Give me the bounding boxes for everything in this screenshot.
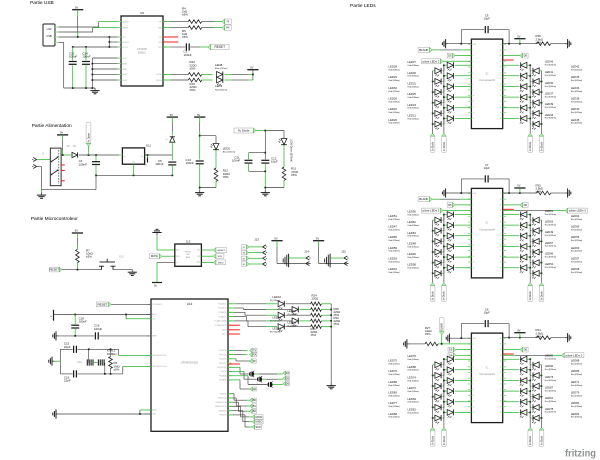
power 9V xyxy=(57,131,68,135)
wire bus xyxy=(443,359,445,427)
wire xyxy=(455,204,471,206)
wire xyxy=(228,415,252,427)
LED LED65 xyxy=(532,228,539,236)
svg-text:21: 21 xyxy=(500,101,502,103)
LED LED29 xyxy=(435,79,441,87)
wire xyxy=(508,30,510,44)
resistor label R26 xyxy=(311,327,318,337)
LED LED68 xyxy=(532,270,539,278)
LED LED41 xyxy=(520,73,527,81)
wire xyxy=(443,70,444,72)
connector J14 xyxy=(271,236,310,267)
LED LED50 xyxy=(447,212,453,220)
LED label LED75 xyxy=(389,359,401,366)
wire xyxy=(433,219,435,221)
svg-text:26: 26 xyxy=(500,366,502,368)
LED label LED52 xyxy=(408,231,420,238)
wire xyxy=(503,96,520,98)
svg-text:Red (633nm): Red (633nm) xyxy=(389,406,401,408)
wire xyxy=(444,359,447,365)
wire xyxy=(59,28,122,32)
wire bus xyxy=(432,220,434,283)
wire xyxy=(444,65,447,71)
svg-text:Red (633nm): Red (633nm) xyxy=(389,101,401,103)
net label MOSI xyxy=(252,415,263,419)
wire rail xyxy=(96,174,172,176)
svg-text:22pF: 22pF xyxy=(64,379,71,383)
net label pilote LEDs 2 xyxy=(422,208,443,213)
svg-text:LED78: LED78 xyxy=(545,407,554,411)
wire xyxy=(527,76,530,82)
wire xyxy=(228,407,252,417)
LED LED63 xyxy=(520,222,527,230)
wire xyxy=(300,320,311,322)
junction xyxy=(432,107,445,114)
LED IR row 1 xyxy=(278,301,284,309)
wire xyxy=(503,235,520,237)
svg-text:PC6(/RESET): PC6(/RESET) xyxy=(152,304,162,306)
svg-text:PB3(MOSI/OC2): PB3(MOSI/OC2) xyxy=(215,406,227,408)
LED LED57 xyxy=(532,260,539,268)
svg-text:MISO: MISO xyxy=(218,262,224,264)
net label RESET xyxy=(208,44,229,49)
svg-text:10: 10 xyxy=(473,95,475,97)
svg-text:LED85: LED85 xyxy=(545,354,554,358)
LED LED71 xyxy=(532,383,539,391)
junction xyxy=(460,192,462,194)
IC Composant4 LED driver xyxy=(468,188,506,278)
capacitor C2 xyxy=(163,43,208,56)
svg-text:±5%: ±5% xyxy=(536,40,542,44)
wire xyxy=(444,215,447,221)
junction xyxy=(529,96,542,103)
svg-text:LED5: LED5 xyxy=(223,146,231,150)
junction xyxy=(109,36,111,38)
capacitor C6 10uF xyxy=(461,14,509,34)
net label D6 xyxy=(520,53,528,58)
svg-text:9v Diode: 9v Diode xyxy=(444,290,446,300)
LED label LED14 xyxy=(270,316,281,323)
wire xyxy=(54,314,152,316)
svg-text:pilote LEDs 3: pilote LEDs 3 xyxy=(423,59,440,63)
svg-text:100nF: 100nF xyxy=(69,55,77,59)
LED label LED60 xyxy=(571,246,583,253)
svg-text:B0: B0 xyxy=(253,398,257,402)
capacitor C7 10uF xyxy=(461,163,509,183)
wire xyxy=(503,390,520,392)
svg-text:Red (633nm): Red (633nm) xyxy=(408,225,420,227)
wire xyxy=(527,391,530,397)
junction xyxy=(432,96,445,103)
LED label LED50 xyxy=(408,210,420,217)
wire xyxy=(503,107,520,109)
LED LED48 xyxy=(447,244,453,252)
svg-text:31: 31 xyxy=(500,44,502,46)
LED LED51 xyxy=(435,217,441,225)
LED LED28 xyxy=(435,68,441,76)
svg-text:J14: J14 xyxy=(304,249,309,253)
svg-text:2: 2 xyxy=(473,199,474,201)
svg-text:LED36: LED36 xyxy=(545,81,554,85)
net label 9v Diode (vertical) xyxy=(430,428,435,447)
wire xyxy=(37,159,51,161)
LED label LED61 xyxy=(545,209,557,216)
svg-text:Red (633nm): Red (633nm) xyxy=(545,96,557,98)
wire xyxy=(444,257,447,263)
wire xyxy=(133,164,135,175)
svg-text:Red (633nm): Red (633nm) xyxy=(408,214,420,216)
svg-text:LED81: LED81 xyxy=(571,412,580,416)
wire xyxy=(527,215,530,221)
LED label LED58 xyxy=(408,263,420,270)
svg-text:Red (633nm): Red (633nm) xyxy=(571,364,583,366)
wire bus xyxy=(541,220,543,283)
svg-text:5V: 5V xyxy=(197,113,200,117)
svg-text:LED91: LED91 xyxy=(545,396,554,400)
wire xyxy=(452,337,471,339)
connector J13 xyxy=(241,237,267,266)
wire xyxy=(433,251,435,253)
wire bus xyxy=(541,71,543,134)
wire xyxy=(145,154,173,156)
svg-text:9v Diode: 9v Diode xyxy=(541,435,543,445)
LED LED6 xyxy=(279,131,287,145)
wire xyxy=(228,359,250,361)
svg-text:Gnd: Gnd xyxy=(132,161,135,163)
junction xyxy=(508,192,510,194)
wire xyxy=(443,262,444,264)
svg-text:Red (633nm): Red (633nm) xyxy=(571,80,583,82)
svg-text:29: 29 xyxy=(500,349,502,351)
junction xyxy=(147,154,149,156)
svg-text:LED53: LED53 xyxy=(389,257,398,261)
LED label LED55 xyxy=(571,235,583,242)
svg-text:6: 6 xyxy=(473,222,474,224)
junction xyxy=(508,43,510,45)
wire xyxy=(539,417,541,419)
wire xyxy=(539,80,541,82)
LED IR row 4 xyxy=(292,318,298,326)
net label D6 xyxy=(520,347,528,352)
svg-text:9v Diode: 9v Diode xyxy=(432,435,434,445)
wire xyxy=(503,358,520,360)
connector J15 xyxy=(313,236,349,267)
svg-text:100nF: 100nF xyxy=(82,55,90,59)
svg-text:AVR: AVR xyxy=(186,256,191,259)
svg-text:LED33: LED33 xyxy=(545,113,554,117)
junction xyxy=(432,235,445,242)
svg-text:LED28: LED28 xyxy=(389,65,398,69)
svg-text:±5%: ±5% xyxy=(425,332,431,336)
wire xyxy=(527,402,530,408)
svg-text:IR (940nm): IR (940nm) xyxy=(288,326,298,328)
net label 9v Diode (vertical) xyxy=(442,283,447,302)
LED label LED37 xyxy=(545,92,557,99)
wire xyxy=(277,320,292,322)
wire xyxy=(157,262,175,282)
svg-text:B1: B1 xyxy=(253,404,257,408)
svg-text:+5: +5 xyxy=(176,262,178,264)
svg-text:3: 3 xyxy=(473,55,474,57)
svg-text:28: 28 xyxy=(500,61,502,63)
LED label LED91 xyxy=(545,396,557,403)
LED LED56 xyxy=(435,239,441,247)
net label SCK xyxy=(252,425,262,429)
wire xyxy=(443,123,444,125)
wire xyxy=(455,358,472,360)
wire xyxy=(444,370,447,376)
IC J12 AVR ISP xyxy=(175,239,202,266)
junction xyxy=(529,369,542,376)
svg-text:20: 20 xyxy=(500,107,502,109)
net label 9v Diode xyxy=(234,128,256,133)
wire xyxy=(455,107,472,109)
LED label LED11 xyxy=(288,309,298,316)
svg-text:LED49: LED49 xyxy=(545,230,554,234)
capacitor C12 xyxy=(261,157,278,191)
wire xyxy=(286,314,311,316)
svg-text:21: 21 xyxy=(500,250,502,252)
wire xyxy=(503,380,520,382)
svg-text:Red (633nm): Red (633nm) xyxy=(389,240,401,242)
wire xyxy=(225,79,253,81)
LED LED66 xyxy=(520,254,527,262)
wire xyxy=(286,326,311,328)
wire xyxy=(113,269,132,271)
svg-text:Red (635nm): Red (635nm) xyxy=(215,89,227,91)
svg-text:LED10: LED10 xyxy=(273,295,282,299)
LED LED35 xyxy=(532,79,539,87)
net label 9v Diode (vertical) xyxy=(442,428,447,447)
wire xyxy=(530,406,531,408)
LED LED89 xyxy=(532,373,539,381)
LED LED59 xyxy=(435,249,441,257)
power 5V xyxy=(514,328,525,337)
svg-text:Red (633nm): Red (633nm) xyxy=(545,224,557,226)
zener diode D3 xyxy=(165,137,175,142)
net label 9v Diode (vertical) xyxy=(528,283,533,302)
wire xyxy=(59,42,96,88)
svg-text:Red (633nm): Red (633nm) xyxy=(571,417,583,419)
wire bus xyxy=(529,359,531,427)
svg-text:PD2(INT0): PD2(INT0) xyxy=(219,359,227,361)
wire xyxy=(455,411,472,413)
wire xyxy=(443,60,471,62)
LED LED36 xyxy=(520,84,527,92)
power 5v (rotated) xyxy=(50,310,54,321)
svg-text:RX: RX xyxy=(253,353,257,357)
wire XTAL2 xyxy=(123,367,151,374)
junction xyxy=(77,36,79,38)
svg-text:LED25: LED25 xyxy=(408,92,417,96)
capacitor C8 10uF xyxy=(461,308,509,328)
wire xyxy=(432,198,471,200)
wire xyxy=(228,308,277,310)
resistor R6 xyxy=(109,349,121,374)
LED LED87 xyxy=(520,388,527,396)
wire xyxy=(503,43,537,45)
wire bus xyxy=(443,215,445,283)
svg-text:4: 4 xyxy=(473,61,474,63)
svg-text:J13: J13 xyxy=(254,237,259,241)
LED LED34 xyxy=(532,89,539,97)
wire xyxy=(201,249,213,251)
svg-text:13: 13 xyxy=(473,262,475,264)
ground xyxy=(565,39,571,48)
wire xyxy=(444,87,447,93)
svg-text:5v: 5v xyxy=(50,316,52,318)
svg-text:9v Diode: 9v Diode xyxy=(444,141,446,151)
junction xyxy=(432,401,445,408)
svg-text:LED69: LED69 xyxy=(408,397,417,401)
capacitor C5 xyxy=(155,159,176,176)
wire bus xyxy=(432,71,434,134)
junction xyxy=(330,320,332,322)
svg-text:Red (633nm): Red (633nm) xyxy=(389,80,401,82)
svg-text:Red (633nm): Red (633nm) xyxy=(571,395,583,397)
wire xyxy=(443,417,444,419)
junction xyxy=(529,358,531,360)
wire xyxy=(444,225,447,231)
svg-text:B2: B2 xyxy=(243,264,245,266)
LED label LED45 xyxy=(571,118,583,125)
LED LED76 xyxy=(447,356,453,364)
unconnected pin ADC7 xyxy=(228,333,240,335)
wire xyxy=(503,55,520,57)
LED LED54 xyxy=(520,265,527,273)
wire xyxy=(433,80,435,82)
wire xyxy=(59,36,122,38)
svg-text:24: 24 xyxy=(500,84,502,86)
svg-text:10µF: 10µF xyxy=(484,17,491,21)
net label D6 xyxy=(520,203,528,208)
LED LED53 xyxy=(435,260,441,268)
wire xyxy=(228,354,247,356)
svg-text:21: 21 xyxy=(500,395,502,397)
svg-text:LED67: LED67 xyxy=(545,241,554,245)
wire xyxy=(503,210,565,212)
wire xyxy=(448,43,471,45)
wire xyxy=(527,246,530,252)
LED LED40 xyxy=(532,111,539,119)
junction xyxy=(264,187,266,189)
svg-text:16 MHz: 16 MHz xyxy=(107,352,118,356)
svg-text:Composant1: Composant1 xyxy=(479,372,495,376)
svg-text:10: 10 xyxy=(473,245,475,247)
wire xyxy=(321,320,331,322)
junction xyxy=(95,175,97,177)
wire xyxy=(503,401,520,403)
power 5V xyxy=(72,229,83,233)
svg-text:6: 6 xyxy=(473,72,474,74)
LED LED61 xyxy=(520,212,527,220)
svg-text:TX: TX xyxy=(226,22,229,24)
svg-text:31: 31 xyxy=(500,338,502,340)
svg-text:B2: B2 xyxy=(253,409,257,413)
wire xyxy=(433,240,435,242)
svg-text:B0: B0 xyxy=(243,253,245,255)
svg-text:LED75: LED75 xyxy=(389,359,398,363)
wire xyxy=(455,96,472,98)
svg-text:D6: D6 xyxy=(524,203,528,207)
resistor IR row 1 xyxy=(311,302,322,306)
LED LED67 xyxy=(520,244,527,252)
wire xyxy=(225,73,253,75)
wire xyxy=(539,251,541,253)
svg-text:13: 13 xyxy=(473,406,475,408)
ground xyxy=(90,88,99,94)
svg-text:Red (633nm): Red (633nm) xyxy=(571,101,583,103)
LED label LED21 xyxy=(408,113,420,120)
resistor R36 xyxy=(536,34,566,45)
wire xyxy=(527,65,530,71)
wire xyxy=(503,214,520,216)
wire xyxy=(443,374,444,376)
LED label LED76 xyxy=(408,354,420,361)
junction xyxy=(529,64,531,66)
power 5v small xyxy=(145,155,148,167)
wire xyxy=(539,272,541,274)
svg-text:5: 5 xyxy=(473,361,474,363)
wire xyxy=(530,102,531,104)
svg-text:LED42: LED42 xyxy=(571,65,580,69)
wire xyxy=(503,337,537,339)
svg-text:19: 19 xyxy=(500,262,502,264)
LED label LED83 xyxy=(389,391,401,398)
LED LED86 xyxy=(447,367,453,375)
svg-text:Red (633nm): Red (633nm) xyxy=(545,267,557,269)
LED LED60 xyxy=(532,249,539,257)
ground xyxy=(53,409,59,418)
svg-text:Red (633nm): Red (633nm) xyxy=(408,236,420,238)
svg-text:Red (633nm): Red (633nm) xyxy=(408,97,420,99)
wire xyxy=(443,219,444,221)
wire xyxy=(530,417,531,419)
svg-text:26: 26 xyxy=(500,72,502,74)
junction xyxy=(77,269,79,271)
svg-text:LED54: LED54 xyxy=(545,262,554,266)
svg-text:Partie Alimentation: Partie Alimentation xyxy=(32,123,72,129)
svg-text:±5%: ±5% xyxy=(291,173,297,177)
junction xyxy=(199,135,201,137)
capacitor C19 xyxy=(94,324,151,340)
junction xyxy=(264,152,266,154)
ground xyxy=(327,383,336,389)
LED label LED40 xyxy=(571,107,583,114)
net label D4 xyxy=(283,371,290,375)
ground xyxy=(446,334,452,343)
wire xyxy=(539,406,541,408)
svg-text:Red (633nm): Red (633nm) xyxy=(571,240,583,242)
LED label LED78 xyxy=(545,407,557,414)
wire xyxy=(530,396,531,398)
wire xyxy=(444,381,447,387)
junction xyxy=(74,335,76,337)
net label pilote LEDs 2 xyxy=(562,353,584,358)
svg-text:LED86: LED86 xyxy=(408,365,417,369)
wire xyxy=(503,86,520,88)
junction xyxy=(529,107,542,114)
LED label LED73 xyxy=(545,375,557,382)
LED LED83 xyxy=(435,394,441,402)
wire xyxy=(88,146,90,155)
wire xyxy=(455,401,472,403)
wire xyxy=(530,91,531,93)
resistor IR row 3 xyxy=(311,313,322,317)
power 5V xyxy=(194,113,205,117)
svg-text:PD3(INT1): PD3(INT1) xyxy=(219,363,227,365)
svg-text:3V3OUT: 3V3OUT xyxy=(122,42,129,44)
